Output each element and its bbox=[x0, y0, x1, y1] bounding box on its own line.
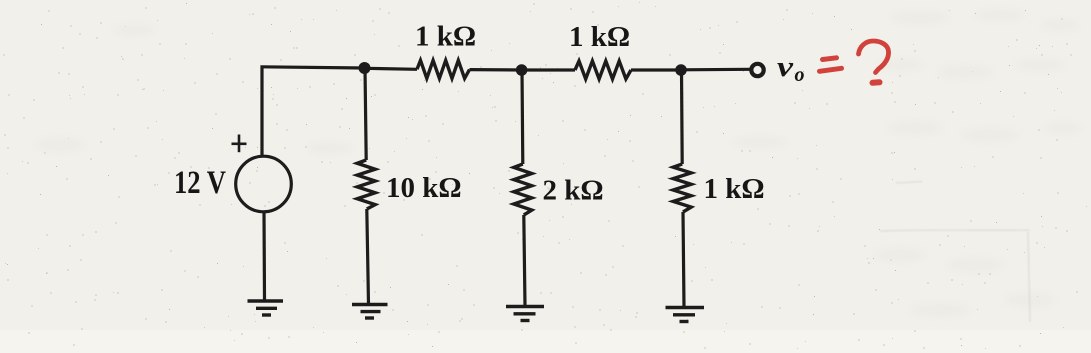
resistor R4 2 kOhm (vertical zigzag) bbox=[514, 164, 532, 215]
svg-text:1 kΩ: 1 kΩ bbox=[415, 21, 476, 53]
handwritten red question mark bbox=[859, 41, 889, 83]
svg-text:o: o bbox=[795, 64, 805, 86]
wire: node C down to R5 bbox=[680, 70, 684, 164]
ground: R3 ground bbox=[352, 305, 388, 319]
wire: node C to output terminal bbox=[681, 68, 750, 72]
wire: R4 down to ground bbox=[524, 215, 525, 306]
wire: source bottom to ground bbox=[262, 212, 266, 300]
resistor R1 1 kOhm (horizontal zigzag) bbox=[417, 60, 470, 78]
node A (junction dot) bbox=[359, 62, 371, 74]
wire: R5 down to ground bbox=[683, 212, 684, 307]
voltage source V1 (12 V) bbox=[236, 156, 292, 212]
output terminal vo (open circle) bbox=[751, 64, 763, 76]
wire: node A to resistor R1 bbox=[365, 68, 418, 69]
handwritten red equals sign bbox=[820, 58, 842, 72]
resistor R5 1 kOhm (vertical zigzag) bbox=[673, 164, 691, 212]
wire: left vertical from corner down to source top bbox=[260, 66, 263, 157]
wire: node B down to R4 bbox=[520, 70, 524, 164]
node B (junction dot) bbox=[516, 64, 528, 76]
wire: node A down to R3 bbox=[365, 68, 366, 160]
ground: R4 ground bbox=[506, 307, 544, 321]
node C (junction dot) bbox=[675, 64, 687, 76]
svg-text:1 kΩ: 1 kΩ bbox=[704, 173, 765, 205]
resistor R3 10 kOhm (vertical zigzag) bbox=[357, 160, 375, 209]
svg-text:2 kΩ: 2 kΩ bbox=[543, 174, 604, 206]
ground: source ground bbox=[248, 301, 284, 315]
plus polarity mark bbox=[232, 135, 247, 153]
svg-text:10 kΩ: 10 kΩ bbox=[386, 172, 462, 204]
svg-text:v: v bbox=[777, 51, 794, 83]
resistor R2 1 kOhm (horizontal zigzag) bbox=[575, 61, 631, 79]
wire: top-left horizontal from source corner to node A bbox=[261, 67, 365, 68]
ground: R5 ground bbox=[666, 308, 705, 322]
wire: node B to resistor R2 bbox=[522, 68, 575, 71]
wire: R1 to node B bbox=[470, 68, 523, 72]
svg-text:1 kΩ: 1 kΩ bbox=[569, 21, 630, 53]
svg-text:12 V: 12 V bbox=[174, 165, 226, 201]
wire: R3 down to ground bbox=[367, 209, 369, 304]
wire: R2 to node C bbox=[631, 68, 681, 71]
